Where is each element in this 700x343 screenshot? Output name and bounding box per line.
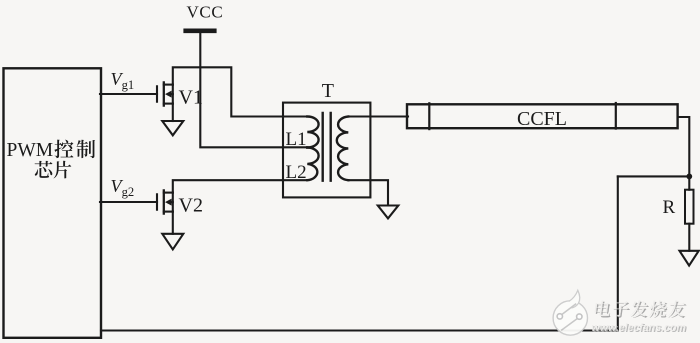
- ground under V1: [162, 121, 183, 135]
- transformer primary winding L2: [307, 148, 318, 181]
- wire secondary bottom to ground: [348, 180, 388, 205]
- wire V2 drain to L2 bottom: [173, 180, 307, 192]
- wire VCC down to center tap: [200, 33, 307, 147]
- wire secondary top to CCFL: [348, 115, 408, 117]
- ground under transformer secondary: [378, 206, 399, 219]
- svg-text:L2: L2: [286, 162, 307, 183]
- transformer secondary winding: [337, 117, 349, 181]
- svg-text:T: T: [322, 80, 334, 102]
- svg-text:V2: V2: [179, 195, 203, 217]
- transformer primary winding L1: [307, 117, 318, 148]
- PWM controller chip U1 box: [4, 68, 102, 338]
- wire R to ground: [688, 224, 690, 251]
- transistor V1 (MOSFET): [157, 82, 173, 121]
- svg-text:g1: g1: [122, 78, 135, 92]
- wire V1 drain to L1 top: [173, 67, 307, 116]
- CCFL lamp tube: [407, 104, 678, 128]
- svg-text:L1: L1: [286, 129, 307, 150]
- wire feedback bottom (chip to sense divider): [101, 329, 618, 331]
- transformer T box: [283, 103, 370, 198]
- watermark logo disc: [553, 290, 587, 335]
- svg-text:www.elecfans.com: www.elecfans.com: [592, 322, 686, 334]
- svg-text:CCFL: CCFL: [517, 108, 567, 130]
- wire Vg2 gate (chip to V2 gate): [100, 201, 157, 203]
- wire CCFL right to node A: [678, 117, 690, 190]
- svg-text:VCC: VCC: [187, 2, 224, 21]
- wire feedback vertical riser: [617, 176, 619, 330]
- VCC power rail bar: [186, 28, 215, 33]
- svg-text:R: R: [663, 197, 676, 218]
- svg-text:V1: V1: [179, 87, 203, 109]
- watermark url: [592, 322, 688, 335]
- ground under R: [680, 251, 699, 266]
- transformer core: [322, 113, 324, 181]
- node A junction dot: [686, 174, 692, 180]
- svg-text:PWM: PWM: [7, 140, 54, 161]
- wire Vg1 gate (chip to V1 gate): [100, 93, 157, 95]
- watermark text 电子发烧友: [594, 300, 687, 318]
- transistor V2 (MOSFET): [157, 190, 173, 233]
- svg-text:g2: g2: [122, 185, 135, 199]
- CCFL lamp left cap seam: [428, 103, 430, 129]
- resistor R: [685, 190, 694, 224]
- wire feedback horizontal to node A: [618, 175, 690, 177]
- ground under V2: [162, 234, 183, 250]
- CCFL lamp right cap seam: [615, 103, 617, 129]
